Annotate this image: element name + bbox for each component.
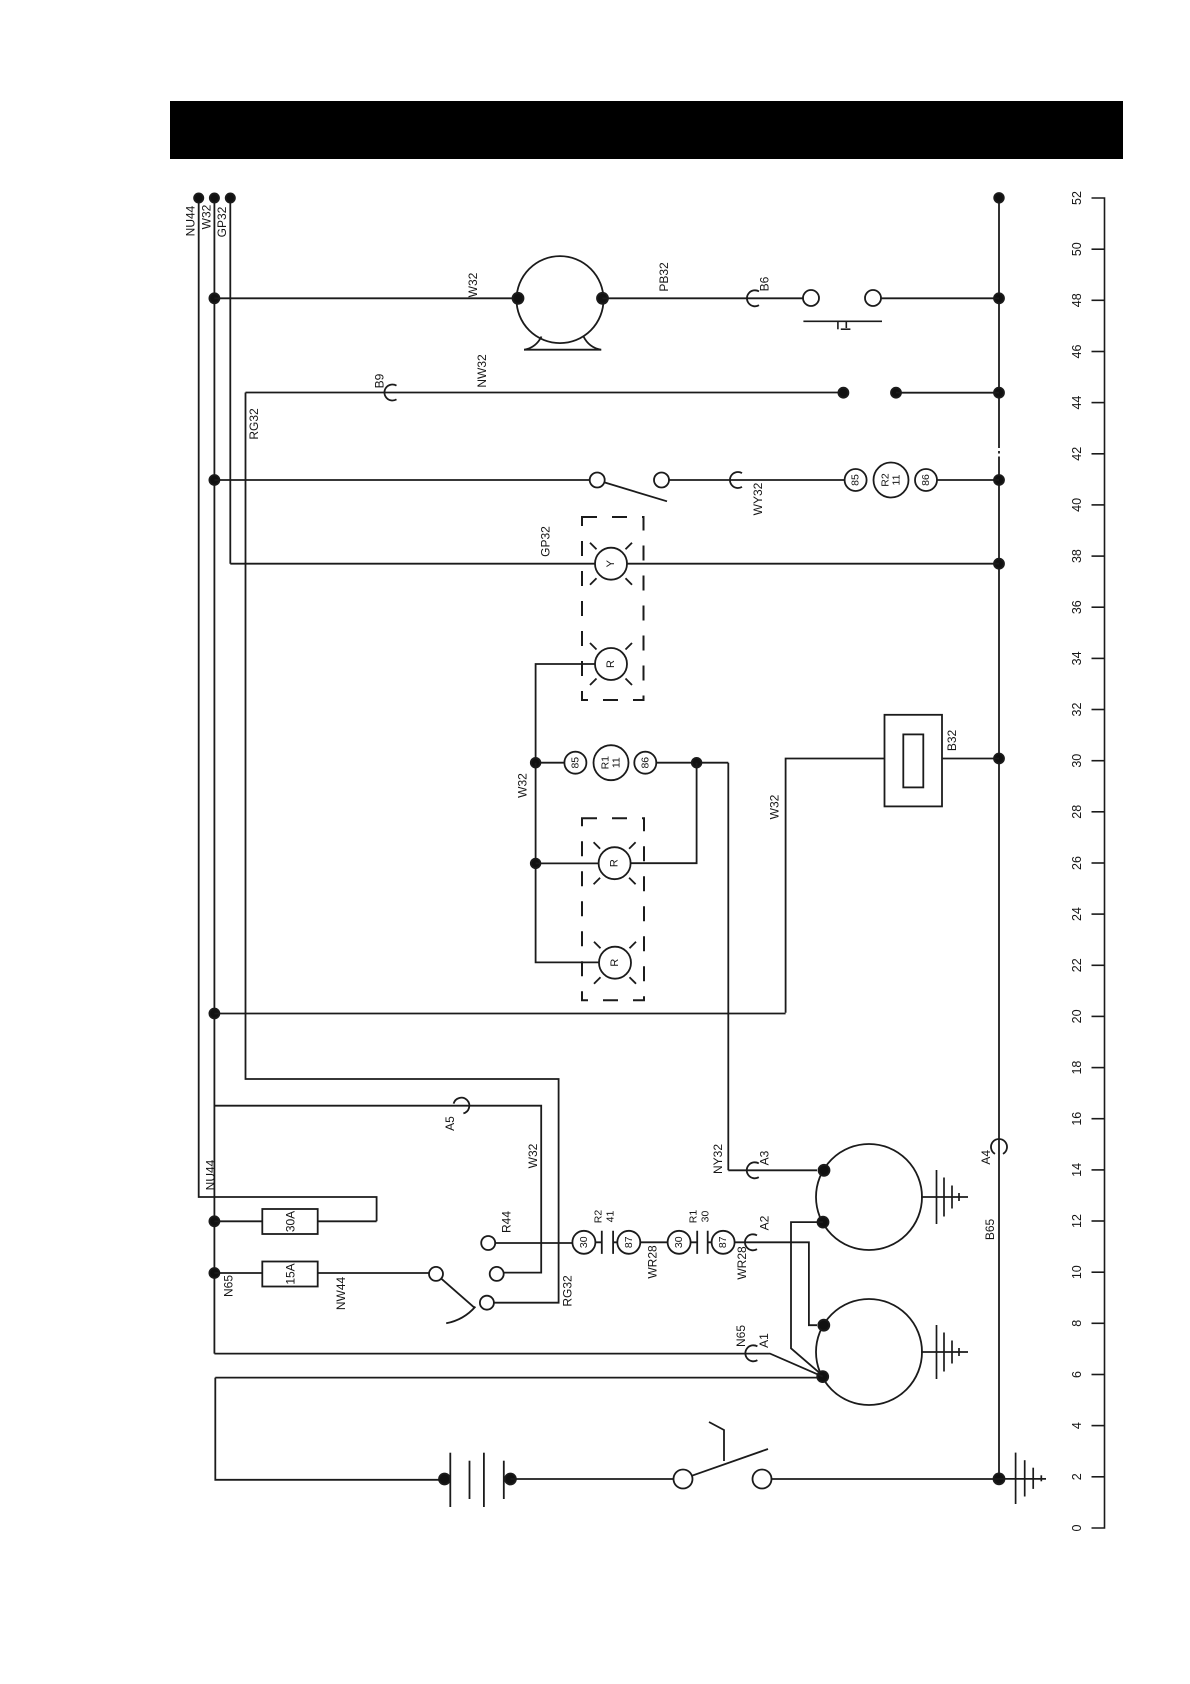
label GP32 (top) xyxy=(215,206,229,237)
label WY32 xyxy=(751,482,765,515)
connector A1 xyxy=(745,1345,757,1361)
wire: feed to switch xyxy=(214,479,589,481)
horn push switch contact 2 xyxy=(865,290,881,306)
relay R2 contact 30 xyxy=(572,1231,595,1254)
horn push switch contact 1 xyxy=(803,290,819,306)
regulator (lower circle) xyxy=(816,1299,922,1405)
node: bus junction WY32 line xyxy=(994,475,1004,485)
svg-text:50: 50 xyxy=(1070,242,1084,256)
switch contact b xyxy=(654,473,669,488)
label A4 xyxy=(979,1150,993,1165)
wire: relay 86 output xyxy=(656,762,728,764)
svg-text:11: 11 xyxy=(891,474,903,485)
label PB32 xyxy=(657,262,671,292)
relay R2 contact 87 xyxy=(617,1231,640,1254)
svg-text:20: 20 xyxy=(1070,1009,1084,1023)
svg-text:NU44: NU44 xyxy=(204,1159,218,1190)
node: horn right terminal xyxy=(597,293,608,304)
wire: N65 run xyxy=(214,1354,822,1377)
svg-text:85: 85 xyxy=(569,757,581,769)
svg-text:30: 30 xyxy=(673,1236,685,1248)
svg-text:A2: A2 xyxy=(758,1215,772,1230)
svg-text:N65: N65 xyxy=(734,1325,748,1347)
connector A3 xyxy=(747,1162,759,1178)
heater switch contact low xyxy=(480,1296,494,1310)
wire: RG32 from NW32 to heater switch xyxy=(246,393,559,1303)
ruler numbers xyxy=(1070,191,1084,1531)
wire: NY32 to generator xyxy=(728,1169,817,1171)
label B9 xyxy=(373,373,387,388)
label N65 (battery side) xyxy=(734,1325,748,1347)
svg-text:46: 46 xyxy=(1070,345,1084,359)
node: regulator terminal A2 xyxy=(818,1320,829,1331)
cutoff switch actuator xyxy=(709,1422,724,1461)
connector B6 xyxy=(747,290,759,306)
wire: branch down to lamp R2 xyxy=(631,763,697,864)
svg-text:A4: A4 xyxy=(979,1150,993,1165)
warning lamp R (ignition) xyxy=(590,643,632,685)
relay R1 contact 30 xyxy=(668,1231,691,1254)
wire: battery loop left xyxy=(215,1378,444,1480)
wire: A1 run to regulator xyxy=(215,1377,817,1379)
node: bus bottom junction xyxy=(994,1473,1005,1484)
svg-text:N65: N65 xyxy=(222,1275,236,1297)
node: snap connector left xyxy=(838,388,848,398)
wire: R2 87 to R1 30 xyxy=(640,1241,667,1243)
svg-text:W32: W32 xyxy=(768,794,782,819)
wire: horn push to earth bus xyxy=(881,297,999,299)
relay R1 coil xyxy=(594,745,629,780)
svg-text:0: 0 xyxy=(1070,1524,1084,1531)
svg-text:44: 44 xyxy=(1070,396,1084,410)
node: battery negative terminal xyxy=(439,1474,450,1485)
svg-text:30: 30 xyxy=(700,1211,712,1223)
wire: generator D to regulator xyxy=(791,1222,823,1376)
svg-text:28: 28 xyxy=(1070,805,1084,819)
label GP32 (lamp wire) xyxy=(539,526,553,557)
relay R1 terminal 86 xyxy=(634,752,656,774)
node: bus junction NW32 line xyxy=(994,388,1004,398)
svg-text:WR28: WR28 xyxy=(735,1246,749,1280)
connector A2 xyxy=(745,1234,757,1250)
wire: earth bus (right vertical) xyxy=(998,198,1000,1479)
svg-text:NY32: NY32 xyxy=(711,1144,725,1174)
relay R1 contact 87 xyxy=(712,1231,735,1254)
wire: long W32 run xyxy=(214,1013,785,1015)
node: junction on W32 feed xyxy=(209,1009,219,1019)
svg-text:WY32: WY32 xyxy=(751,482,765,515)
instrument dashed box 1 xyxy=(582,517,644,700)
label B32 xyxy=(945,730,959,752)
title bar (redacted black banner) xyxy=(170,101,1123,159)
label WR28 (left) xyxy=(646,1245,660,1279)
svg-text:NW32: NW32 xyxy=(475,354,489,388)
svg-text:GP32: GP32 xyxy=(215,206,229,237)
node: junction on W32 feed xyxy=(209,475,219,485)
wire: feed to relay R1 xyxy=(536,762,565,764)
label RG32 (top) xyxy=(247,408,261,440)
ground: regulator earth xyxy=(921,1325,968,1379)
svg-text:Y: Y xyxy=(605,559,617,567)
label B65 xyxy=(983,1219,997,1241)
svg-text:B6: B6 xyxy=(758,276,772,291)
node: junction riser/relay xyxy=(531,758,541,768)
svg-text:R: R xyxy=(609,959,621,967)
label RG32 (bottom) xyxy=(561,1275,575,1307)
node: junction on W32 feed xyxy=(209,293,219,303)
label NU44 (lower) xyxy=(204,1159,218,1190)
label W32 (relay riser) xyxy=(515,773,529,798)
svg-text:8: 8 xyxy=(1070,1320,1084,1327)
node: junction 15A fuse xyxy=(209,1268,219,1278)
svg-text:10: 10 xyxy=(1070,1265,1084,1279)
svg-text:42: 42 xyxy=(1070,447,1084,461)
label NY32 xyxy=(711,1144,725,1174)
svg-text:A5: A5 xyxy=(443,1116,457,1131)
node: bus junction lamp Y line xyxy=(994,559,1004,569)
wire: W32/N65 vertical feed xyxy=(213,198,215,1354)
label A1 xyxy=(757,1333,771,1348)
svg-text:26: 26 xyxy=(1070,856,1084,870)
svg-text:W32: W32 xyxy=(200,204,214,229)
svg-text:14: 14 xyxy=(1070,1163,1084,1177)
wire: NU44 vertical feed xyxy=(199,198,377,1221)
heater switch contact mid xyxy=(490,1267,504,1281)
label NW44 xyxy=(334,1277,348,1311)
switch contact a xyxy=(590,473,605,488)
label W32 (B32 riser) xyxy=(768,794,782,819)
node: generator terminal D xyxy=(818,1217,829,1228)
label R1 30 xyxy=(688,1210,712,1224)
node: regulator terminal A1 xyxy=(817,1371,828,1382)
wire: battery to cutoff switch xyxy=(510,1478,673,1480)
wire: WR28 to dynamo A2 xyxy=(735,1242,817,1325)
svg-text:48: 48 xyxy=(1070,293,1084,307)
wire: snap connector to bus xyxy=(896,392,999,394)
svg-text:87: 87 xyxy=(623,1236,635,1248)
node: snap connector right xyxy=(891,388,901,398)
wire: PB32 horn to push xyxy=(603,297,804,299)
horn (motor symbol) xyxy=(517,256,604,350)
svg-text:30: 30 xyxy=(578,1236,590,1248)
wire: lamp R feed from W32 riser xyxy=(536,664,595,763)
ground: generator earth xyxy=(921,1170,968,1224)
svg-text:A3: A3 xyxy=(758,1150,772,1165)
relay R2 terminal 86 xyxy=(915,469,937,491)
wire: R44 to relay contact xyxy=(495,1242,572,1244)
svg-text:RG32: RG32 xyxy=(561,1275,575,1307)
svg-text:A1: A1 xyxy=(757,1333,771,1348)
svg-text:32: 32 xyxy=(1070,703,1084,717)
switch blade xyxy=(604,482,667,501)
wire: feed to 30A fuse xyxy=(214,1220,262,1222)
label WR28 (right) xyxy=(735,1246,749,1280)
wire: W32 riser to B32 xyxy=(786,759,885,1013)
svg-text:RG32: RG32 xyxy=(247,408,261,440)
label W32 (heater drop) xyxy=(526,1143,540,1168)
node: W32 top terminal xyxy=(210,193,219,202)
wire: riser to lamps R2/R3 xyxy=(536,763,600,963)
svg-text:85: 85 xyxy=(850,474,862,486)
connector WY32 xyxy=(730,472,742,488)
label R2 41 xyxy=(593,1210,617,1224)
svg-text:12: 12 xyxy=(1070,1214,1084,1228)
wire: relay 86 to bus xyxy=(937,479,999,481)
svg-text:NU44: NU44 xyxy=(184,205,198,236)
node: junction lamp R2 xyxy=(531,859,541,869)
relay R1 contact bars xyxy=(691,1231,712,1254)
label B6 xyxy=(758,276,772,291)
wire: cutoff switch to earth bus xyxy=(772,1478,1000,1480)
svg-text:R2: R2 xyxy=(593,1210,605,1224)
wire: NW44 fuse to heater switch xyxy=(318,1272,429,1274)
gauge B32 xyxy=(885,715,943,807)
svg-text:16: 16 xyxy=(1070,1112,1084,1126)
cutoff switch contact a xyxy=(674,1470,693,1489)
instrument dashed box 2 xyxy=(582,818,644,1000)
svg-text:36: 36 xyxy=(1070,600,1084,614)
relay R2 contact bars xyxy=(595,1231,617,1254)
label R44 xyxy=(500,1211,514,1233)
relay R2 coil xyxy=(874,463,909,498)
wire: NW32 line xyxy=(246,392,844,394)
cutoff switch contact b xyxy=(753,1470,772,1489)
svg-text:86: 86 xyxy=(639,757,651,769)
wire: GP32 to lamp Y xyxy=(230,563,595,565)
label W32 (top) xyxy=(200,204,214,229)
wire: NY32 drop to A3 xyxy=(727,763,729,1171)
svg-text:W32: W32 xyxy=(526,1143,540,1168)
node: NU44 top terminal xyxy=(194,193,203,202)
svg-text:R: R xyxy=(605,660,617,668)
svg-text:R: R xyxy=(609,859,621,867)
ground: bus bottom earth xyxy=(999,1453,1046,1504)
wire: 30A fuse to NU44 drop xyxy=(318,1220,377,1222)
relay R2 terminal 85 xyxy=(845,469,867,491)
wire: junction to lamp R2 xyxy=(536,862,600,864)
ruler scale line xyxy=(1092,198,1105,1528)
label A3 xyxy=(758,1150,772,1165)
heater switch travel arc xyxy=(446,1307,475,1324)
wire: B32 to bus xyxy=(942,758,999,760)
connector A5 xyxy=(454,1098,470,1114)
node: generator terminal F xyxy=(819,1165,830,1176)
wire: W32 to horn xyxy=(214,297,518,299)
node: bus junction B32 line xyxy=(994,754,1004,764)
wire: W32 feed turn to heater switch xyxy=(214,1106,541,1273)
node: bus junction horn line xyxy=(994,293,1004,303)
svg-text:87: 87 xyxy=(717,1236,729,1248)
heater switch contact R44 xyxy=(481,1236,495,1250)
generator (upper circle) xyxy=(816,1144,922,1250)
svg-text:W32: W32 xyxy=(466,272,480,297)
svg-text:4: 4 xyxy=(1070,1422,1084,1429)
svg-text:R1: R1 xyxy=(688,1210,700,1224)
label NU44 (top) xyxy=(184,205,198,236)
battery xyxy=(450,1453,504,1507)
connector A4 on bus xyxy=(991,1139,1007,1154)
wire: lamp Y to bus xyxy=(627,563,999,565)
svg-text:PB32: PB32 xyxy=(657,262,671,292)
svg-text:22: 22 xyxy=(1070,958,1084,972)
svg-text:R44: R44 xyxy=(500,1211,514,1233)
svg-text:B65: B65 xyxy=(983,1219,997,1241)
svg-text:NW44: NW44 xyxy=(334,1277,348,1311)
svg-text:30: 30 xyxy=(1070,754,1084,768)
label W32 (horn wire) xyxy=(466,272,480,297)
wire: switch to relay coil xyxy=(669,479,845,481)
svg-text:34: 34 xyxy=(1070,651,1084,665)
svg-text:40: 40 xyxy=(1070,498,1084,512)
svg-text:86: 86 xyxy=(920,474,932,486)
node: battery positive terminal xyxy=(505,1474,516,1485)
label A2 xyxy=(758,1215,772,1230)
heater switch common contact xyxy=(429,1267,443,1281)
svg-text:52: 52 xyxy=(1070,191,1084,205)
svg-text:GP32: GP32 xyxy=(539,526,553,557)
wire: GP32 vertical feed xyxy=(229,198,231,564)
svg-text:11: 11 xyxy=(611,757,623,768)
warning lamp Y xyxy=(590,543,632,585)
svg-text:2: 2 xyxy=(1070,1473,1084,1480)
node: junction 30A fuse xyxy=(209,1216,219,1226)
svg-text:W32: W32 xyxy=(515,773,529,798)
label A5 xyxy=(443,1116,457,1131)
svg-text:6: 6 xyxy=(1070,1371,1084,1378)
node: GP32 top terminal xyxy=(226,193,235,202)
connector B9 xyxy=(384,384,396,400)
warning lamp R2 xyxy=(594,842,636,884)
fuse 30A xyxy=(262,1209,317,1234)
cutoff switch blade xyxy=(692,1449,768,1476)
wire: feed to 15A fuse xyxy=(214,1272,262,1274)
svg-text:B9: B9 xyxy=(373,373,387,388)
label N65 (fuse side) xyxy=(222,1275,236,1297)
node: junction lamp branch xyxy=(692,758,702,768)
svg-text:WR28: WR28 xyxy=(646,1245,660,1279)
warning lamp R3 xyxy=(594,942,636,984)
horn push actuator xyxy=(803,321,882,329)
svg-text:24: 24 xyxy=(1070,907,1084,921)
node: bus top terminal xyxy=(994,193,1004,203)
node: horn left terminal xyxy=(513,293,524,304)
svg-text:30A: 30A xyxy=(284,1211,298,1232)
svg-text:41: 41 xyxy=(605,1211,617,1223)
heater switch blade xyxy=(441,1279,474,1308)
svg-text:B32: B32 xyxy=(945,730,959,752)
svg-text:38: 38 xyxy=(1070,549,1084,563)
svg-text:18: 18 xyxy=(1070,1061,1084,1075)
fuse 15A xyxy=(262,1262,317,1287)
relay R1 terminal 85 xyxy=(564,752,586,774)
label NW32 xyxy=(475,354,489,388)
svg-text:15A: 15A xyxy=(284,1263,298,1284)
ruler ticks xyxy=(1092,249,1105,1477)
